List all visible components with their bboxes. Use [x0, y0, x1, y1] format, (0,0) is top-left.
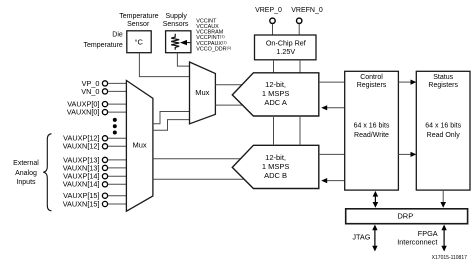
wire control to status arrow upper [398, 80, 416, 85]
svg-text:12-bit,: 12-bit, [265, 80, 286, 89]
input terminals column [102, 81, 107, 207]
wire control regs to ADC A with arrow [321, 105, 345, 110]
svg-text:Registers: Registers [428, 82, 458, 89]
svg-text:Mux: Mux [133, 141, 147, 150]
wire mux1 to ADC B upper [153, 158, 241, 160]
svg-text:FPGA: FPGA [418, 229, 438, 238]
svg-text:1.25V: 1.25V [276, 47, 295, 56]
svg-text:64 x 16 bits: 64 x 16 bits [354, 123, 390, 130]
svg-text:JTAG: JTAG [352, 232, 370, 241]
svg-text:VN_0: VN_0 [81, 87, 99, 96]
supply sensor arrow [180, 40, 191, 45]
on-chip reference box [255, 35, 317, 60]
wire control to status arrow lower [398, 152, 416, 157]
svg-text:Sensors: Sensors [163, 21, 189, 28]
svg-text:X17015-110817: X17015-110817 [432, 255, 467, 261]
label External Analog Inputs [13, 160, 39, 186]
input stub wires to mux1 [108, 83, 127, 204]
mux M2 (sensor mux) [190, 62, 216, 124]
temperature sensor box U-temp [127, 31, 151, 53]
wire temp sensor to mux2 [139, 53, 189, 77]
wire ADC A to ADC B right [299, 116, 301, 145]
svg-text:External: External [13, 160, 39, 167]
ellipsis dots [113, 118, 117, 135]
svg-text:°C: °C [134, 37, 143, 46]
svg-text:1 MSPS: 1 MSPS [262, 162, 290, 171]
svg-text:Temperature: Temperature [119, 13, 158, 20]
wire mux2 to ADC A upper [215, 84, 242, 86]
svg-text:Registers: Registers [357, 82, 387, 89]
svg-text:Mux: Mux [195, 88, 209, 97]
JTAG double arrow [372, 225, 377, 252]
wire ADC A to ADC B left [273, 116, 275, 145]
mux M1 (main analog mux) [126, 81, 152, 212]
wire VREFN_0 to ref box [298, 24, 300, 35]
supply sensor resistor icon [171, 34, 179, 50]
terminal VREFN_0 [297, 18, 302, 23]
label Die Temperature [84, 31, 123, 48]
svg-text:DRP: DRP [397, 212, 413, 221]
svg-text:VAUXN[12]: VAUXN[12] [63, 142, 100, 151]
svg-text:Control: Control [360, 74, 383, 81]
label Temperature Sensor [119, 13, 158, 28]
DRP box [346, 209, 468, 224]
wire control regs to DRP double arrow [373, 191, 379, 208]
svg-text:Die: Die [112, 31, 123, 38]
supply rails label list [196, 19, 232, 53]
wire ADC A out to control regs [319, 81, 345, 83]
status registers box [416, 71, 470, 190]
ADC B block [232, 145, 318, 188]
wire control regs to ADC B with arrow [321, 178, 345, 183]
svg-text:64 x 16 bits: 64 x 16 bits [425, 123, 461, 130]
svg-text:ADC B: ADC B [264, 171, 287, 180]
svg-text:Read Only: Read Only [427, 132, 461, 139]
wire status regs to DRP arrow [440, 190, 446, 208]
svg-text:Status: Status [433, 74, 453, 81]
control registers box [345, 71, 399, 190]
wire ref to ADC A right [299, 60, 301, 73]
terminal VREP_0 [270, 18, 275, 23]
svg-text:Interconnect: Interconnect [397, 238, 437, 247]
wire mux1 to ADC B lower [153, 178, 244, 180]
svg-text:On-Chip Ref: On-Chip Ref [266, 38, 306, 47]
svg-text:VREP_0: VREP_0 [255, 7, 282, 14]
svg-text:VAUXN[0]: VAUXN[0] [67, 108, 100, 117]
svg-text:Inputs: Inputs [16, 179, 36, 186]
svg-text:12-bit,: 12-bit, [265, 153, 286, 162]
wire mux1 to mux2 lower step [153, 120, 190, 131]
svg-text:VREFN_0: VREFN_0 [291, 7, 323, 14]
supply sensors box U-supply [166, 31, 191, 53]
svg-text:Read/Write: Read/Write [354, 132, 389, 139]
wire ref to ADC A left [273, 60, 275, 73]
ADC A block [232, 73, 318, 116]
svg-text:Supply: Supply [165, 13, 187, 20]
wire ADC B out to control regs [319, 153, 345, 155]
brace external inputs [43, 134, 51, 211]
wire mux1 to mux2 upper step [153, 112, 190, 124]
svg-text:VAUXN[14]: VAUXN[14] [63, 180, 100, 189]
svg-text:Temperature: Temperature [84, 42, 123, 49]
svg-text:Analog: Analog [15, 170, 37, 177]
svg-text:1 MSPS: 1 MSPS [262, 89, 290, 98]
FPGA interconnect double arrow [441, 225, 446, 252]
wire VREP_0 to ref box [272, 24, 274, 35]
svg-text:Sensor: Sensor [127, 21, 150, 28]
label Supply Sensors [163, 13, 189, 28]
wire supply sensors to mux2 [177, 53, 189, 66]
svg-text:VAUXN[15]: VAUXN[15] [63, 199, 100, 208]
svg-text:ADC A: ADC A [264, 98, 287, 107]
wire mux2 to ADC A lower [215, 104, 242, 106]
